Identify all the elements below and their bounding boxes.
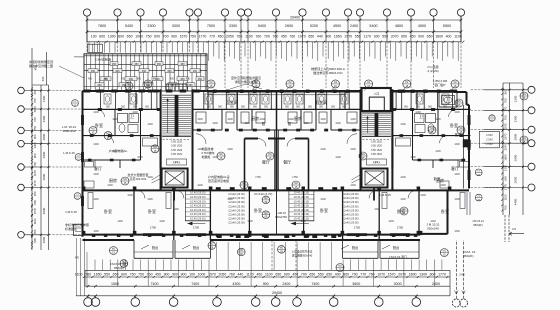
svg-text:阳台: 阳台 [352, 245, 358, 250]
svg-text:1070: 1070 [33, 169, 37, 176]
svg-text:2070: 2070 [398, 273, 406, 277]
svg-text:450: 450 [112, 63, 117, 66]
svg-text:2070: 2070 [504, 144, 508, 151]
svg-text:900: 900 [33, 153, 37, 158]
svg-text:600: 600 [99, 34, 105, 38]
svg-text:1080x240: 1080x240 [62, 129, 76, 133]
svg-text:0.58 1520: 0.58 1520 [371, 141, 383, 144]
svg-text:650: 650 [33, 191, 37, 196]
svg-text:450: 450 [170, 84, 175, 87]
svg-text:760: 760 [289, 34, 295, 38]
svg-text:2800: 2800 [42, 133, 46, 140]
svg-text:1200: 1200 [112, 150, 118, 153]
svg-text:C2x40 (29.00): C2x40 (29.00) [228, 192, 245, 196]
svg-text:4800: 4800 [395, 24, 403, 28]
svg-text:1200: 1200 [93, 143, 99, 146]
svg-text:450: 450 [188, 84, 193, 87]
svg-text:1650: 1650 [334, 34, 342, 38]
svg-text:2.540: 2.540 [486, 142, 493, 146]
svg-text:3900: 3900 [514, 154, 518, 161]
svg-text:5400: 5400 [125, 24, 133, 28]
svg-text:2600: 2600 [285, 24, 293, 28]
svg-text:4300: 4300 [232, 282, 240, 286]
svg-text:10.40 (29.10): 10.40 (29.10) [190, 191, 206, 195]
svg-text:入口: 入口 [374, 92, 380, 96]
svg-text:1200: 1200 [350, 148, 356, 151]
svg-text:1200: 1200 [212, 122, 218, 125]
svg-text:1200: 1200 [93, 173, 99, 176]
svg-text:1200: 1200 [454, 173, 460, 176]
svg-text:J.M.15.21: J.M.15.21 [472, 219, 484, 223]
svg-text:1000: 1000 [198, 273, 206, 277]
svg-text:1200: 1200 [107, 184, 113, 187]
svg-text:1200: 1200 [400, 176, 406, 179]
svg-text:1200: 1200 [350, 184, 356, 187]
svg-text:870: 870 [75, 257, 80, 260]
svg-text:1570: 1570 [33, 207, 37, 214]
svg-text:C2x40 (29.00): C2x40 (29.00) [342, 221, 359, 225]
svg-text:900: 900 [374, 34, 380, 38]
svg-text:厨: 厨 [262, 121, 266, 126]
svg-text:1750: 1750 [397, 226, 404, 230]
svg-text:1770: 1770 [199, 34, 207, 38]
svg-text:650: 650 [427, 34, 433, 38]
svg-text:450: 450 [129, 78, 134, 81]
svg-text:450: 450 [97, 84, 102, 87]
svg-text:600: 600 [504, 176, 508, 181]
svg-text:700: 700 [301, 273, 307, 277]
svg-text:2400: 2400 [432, 282, 440, 286]
svg-text:1000: 1000 [135, 34, 143, 38]
svg-text:1200: 1200 [227, 118, 233, 121]
svg-text:铝门窗P: 铝门窗P [434, 82, 445, 87]
svg-text:卧室: 卧室 [95, 122, 103, 128]
svg-text:450: 450 [142, 70, 147, 73]
svg-text:900: 900 [171, 34, 177, 38]
svg-text:1170: 1170 [33, 180, 37, 186]
svg-text:600: 600 [33, 89, 37, 94]
svg-text:1200: 1200 [147, 198, 153, 201]
svg-text:0.58 1520: 0.58 1520 [171, 141, 183, 144]
svg-text:550: 550 [104, 273, 110, 277]
svg-text:450: 450 [91, 70, 96, 73]
svg-text:1300: 1300 [504, 164, 508, 171]
svg-text:900: 900 [33, 238, 37, 243]
svg-text:2.540: 2.540 [486, 133, 493, 137]
svg-text:1200: 1200 [212, 156, 218, 159]
svg-text:C2x40 (29.00): C2x40 (29.00) [228, 213, 245, 217]
svg-text:7400: 7400 [151, 282, 159, 286]
svg-text:0.58 1520: 0.58 1520 [171, 153, 183, 156]
svg-text:4 (2300): 4 (2300) [427, 69, 438, 73]
svg-text:10.40 (29.10): 10.40 (29.10) [190, 199, 206, 203]
svg-text:2.540: 2.540 [486, 137, 493, 141]
svg-text:5400: 5400 [258, 24, 266, 28]
svg-text:440: 440 [317, 34, 323, 38]
svg-text:10.40 (29.10): 10.40 (29.10) [294, 208, 310, 212]
svg-text:2400: 2400 [350, 24, 358, 28]
svg-text:客厅: 客厅 [455, 132, 462, 137]
svg-text:29400: 29400 [290, 16, 300, 20]
svg-text:760: 760 [33, 117, 37, 122]
svg-text:C2x40 (29.00): C2x40 (29.00) [342, 192, 359, 196]
svg-text:1200: 1200 [350, 118, 356, 121]
svg-text:650: 650 [309, 273, 315, 277]
svg-text:C2x40 (29.00): C2x40 (29.00) [228, 204, 245, 208]
svg-text:1170: 1170 [363, 34, 371, 38]
svg-text:标准图集: 标准图集 [65, 226, 77, 231]
svg-text:C2x40 (29.00): C2x40 (29.00) [342, 217, 359, 221]
svg-text:450: 450 [180, 63, 185, 66]
svg-text:1800: 1800 [504, 154, 508, 161]
svg-text:4400: 4400 [514, 198, 518, 205]
svg-text:上部设双控开关详: 上部设双控开关详 [292, 250, 313, 254]
svg-text:760: 760 [255, 34, 261, 38]
svg-text:10.40 (29.10): 10.40 (29.10) [294, 191, 310, 195]
svg-text:760: 760 [504, 205, 508, 210]
svg-text:1570: 1570 [180, 34, 188, 38]
svg-text:1200: 1200 [93, 230, 99, 233]
svg-text:1200: 1200 [374, 208, 380, 211]
svg-text:1200: 1200 [244, 122, 250, 125]
svg-text:卧室: 卧室 [148, 208, 156, 214]
svg-text:1100: 1100 [75, 273, 83, 277]
svg-text:2070: 2070 [391, 34, 399, 38]
svg-text:650: 650 [127, 34, 133, 38]
svg-text:Ch:440 (4.70): Ch:440 (4.70) [254, 192, 272, 196]
svg-text:440: 440 [237, 273, 243, 277]
svg-text:0.58 1520: 0.58 1520 [171, 149, 183, 152]
svg-text:760: 760 [272, 34, 278, 38]
svg-text:1570: 1570 [388, 273, 396, 277]
svg-text:卧室: 卧室 [434, 176, 441, 181]
svg-text:450: 450 [292, 273, 298, 277]
svg-text:750: 750 [138, 273, 144, 277]
svg-text:1200: 1200 [173, 208, 179, 211]
svg-text:C2x40 (29.00): C2x40 (29.00) [228, 217, 245, 221]
svg-text:C2x40 (29.00): C2x40 (29.00) [228, 221, 245, 225]
svg-text:1170: 1170 [246, 273, 254, 277]
svg-text:450: 450 [170, 78, 175, 81]
svg-text:900: 900 [284, 273, 290, 277]
svg-text:1.M.6.15: 1.M.6.15 [379, 193, 391, 197]
svg-text:760: 760 [236, 34, 242, 38]
svg-text:1200: 1200 [320, 198, 326, 201]
svg-text:2000: 2000 [42, 173, 46, 180]
svg-text:1200: 1200 [227, 198, 233, 201]
svg-text:750: 750 [190, 34, 196, 38]
svg-text:0.58 1520: 0.58 1520 [371, 149, 383, 152]
svg-text:J.M.6.16 洞口: J.M.6.16 洞口 [389, 254, 407, 259]
svg-text:1200: 1200 [454, 143, 460, 146]
svg-text:650: 650 [275, 273, 281, 277]
svg-text:1200: 1200 [400, 123, 406, 126]
svg-text:450: 450 [122, 84, 127, 87]
svg-text:见电施图950x240: 见电施图950x240 [292, 253, 313, 257]
svg-text:760: 760 [504, 115, 508, 120]
svg-text:3300: 3300 [42, 115, 46, 122]
svg-text:600: 600 [121, 273, 127, 277]
svg-text:地漏处: 地漏处 [202, 154, 211, 159]
svg-text:2000: 2000 [514, 176, 518, 183]
svg-text:2050: 2050 [33, 106, 37, 113]
svg-text:900: 900 [263, 282, 269, 286]
svg-text:5200: 5200 [310, 24, 318, 28]
svg-text:1200: 1200 [335, 122, 341, 125]
svg-text:C2x40 (29.00): C2x40 (29.00) [342, 196, 359, 200]
svg-text:400: 400 [446, 34, 452, 38]
svg-text:3600: 3600 [352, 282, 360, 286]
svg-text:100: 100 [91, 34, 97, 38]
svg-text:1770: 1770 [438, 273, 446, 277]
svg-text:760: 760 [229, 273, 235, 277]
svg-text:0.58 1520: 0.58 1520 [371, 153, 383, 156]
svg-text:L.M.6.15: L.M.6.15 [63, 151, 75, 155]
svg-text:1200: 1200 [335, 156, 341, 159]
svg-text:C2x40 (29.00): C2x40 (29.00) [342, 213, 359, 217]
svg-text:10.40 (29.10): 10.40 (29.10) [294, 199, 310, 203]
svg-text:卧室: 卧室 [450, 122, 458, 128]
svg-text:4500: 4500 [418, 24, 426, 28]
svg-text:760: 760 [369, 273, 375, 277]
svg-text:900: 900 [33, 134, 37, 139]
svg-text:450: 450 [167, 70, 172, 73]
svg-text:3300: 3300 [147, 24, 155, 28]
svg-text:10.40 (29.10): 10.40 (29.10) [190, 195, 206, 199]
svg-text:1200: 1200 [93, 198, 99, 201]
svg-text:450: 450 [180, 78, 185, 81]
svg-text:1200: 1200 [420, 194, 426, 197]
svg-text:450: 450 [410, 34, 416, 38]
svg-text:1200: 1200 [93, 111, 99, 114]
svg-text:450: 450 [281, 34, 287, 38]
svg-text:1200: 1200 [300, 220, 306, 223]
svg-text:400: 400 [335, 273, 341, 277]
svg-text:450: 450 [104, 78, 109, 81]
svg-text:700: 700 [163, 34, 169, 38]
svg-text:做法参见详图二图: 做法参见详图二图 [29, 63, 53, 68]
svg-text:750: 750 [146, 34, 152, 38]
svg-text:4500: 4500 [333, 24, 341, 28]
svg-text:4000: 4000 [42, 207, 46, 214]
svg-text:1200: 1200 [227, 148, 233, 151]
svg-text:450: 450 [155, 273, 161, 277]
svg-text:450: 450 [121, 78, 126, 81]
svg-text:1200: 1200 [454, 230, 460, 233]
svg-text:800: 800 [33, 200, 37, 205]
svg-text:阳台: 阳台 [193, 245, 199, 250]
svg-text:1200: 1200 [430, 220, 436, 223]
svg-text:1200: 1200 [454, 198, 460, 201]
svg-text:1200: 1200 [137, 156, 143, 159]
svg-text:10.40 (29.10): 10.40 (29.10) [190, 217, 206, 221]
svg-text:1100: 1100 [504, 194, 508, 200]
svg-text:1200: 1200 [132, 111, 138, 114]
svg-text:1200: 1200 [288, 118, 294, 121]
svg-text:C2x40 (29.00): C2x40 (29.00) [228, 208, 245, 212]
svg-text:1570: 1570 [344, 34, 352, 38]
svg-text:1300: 1300 [419, 273, 427, 277]
svg-text:阳台: 阳台 [393, 245, 399, 250]
svg-text:770: 770 [209, 34, 215, 38]
svg-text:5400: 5400 [369, 24, 377, 28]
svg-text:1200: 1200 [159, 220, 165, 223]
svg-text:1200: 1200 [415, 111, 421, 114]
svg-text:550: 550 [318, 273, 324, 277]
svg-text:900: 900 [172, 273, 178, 277]
svg-text:3000: 3000 [394, 282, 402, 286]
svg-text:3300: 3300 [229, 24, 237, 28]
svg-text:0.58 1520: 0.58 1520 [371, 145, 383, 148]
svg-text:1570: 1570 [504, 133, 508, 140]
svg-text:550: 550 [382, 34, 388, 38]
svg-text:2400: 2400 [282, 282, 290, 286]
svg-text:L.M6.15: L.M6.15 [276, 211, 286, 215]
svg-text:600: 600 [430, 273, 436, 277]
svg-text:600: 600 [154, 34, 160, 38]
svg-text:770: 770 [360, 273, 366, 277]
svg-text:1750: 1750 [193, 226, 200, 230]
svg-text:C2x40 (29.00): C2x40 (29.00) [342, 200, 359, 204]
svg-text:1200: 1200 [320, 118, 326, 121]
svg-text:1200: 1200 [259, 118, 265, 121]
svg-text:1200: 1200 [197, 184, 203, 187]
svg-text:1200: 1200 [435, 150, 441, 153]
svg-text:29400: 29400 [272, 291, 282, 295]
svg-text:置高度详见电施: 置高度详见电施 [208, 178, 229, 183]
svg-text:650: 650 [326, 273, 332, 277]
svg-text:10.40 (29.10): 10.40 (29.10) [190, 212, 206, 216]
svg-text:1200: 1200 [454, 111, 460, 114]
svg-text:050x240: 050x240 [427, 227, 439, 231]
svg-text:2050: 2050 [219, 273, 227, 277]
svg-text:1400: 1400 [42, 95, 46, 102]
svg-text:1300: 1300 [108, 34, 116, 38]
svg-text:1570: 1570 [208, 273, 216, 277]
svg-text:900: 900 [418, 34, 424, 38]
svg-text:1750: 1750 [354, 226, 361, 230]
svg-text:C2x40 (29.00): C2x40 (29.00) [342, 204, 359, 208]
svg-text:450: 450 [134, 63, 139, 66]
svg-text:3.5: 3.5 [512, 227, 516, 231]
svg-text:1800: 1800 [435, 34, 443, 38]
svg-text:1200: 1200 [320, 148, 326, 151]
svg-text:1200: 1200 [247, 220, 253, 223]
svg-text:1200: 1200 [127, 194, 133, 197]
svg-text:10.40 (29.10): 10.40 (29.10) [190, 204, 206, 208]
svg-text:550: 550 [355, 34, 361, 38]
svg-text:1750: 1750 [150, 226, 157, 230]
svg-text:2-M6: 2-M6 [459, 274, 465, 277]
svg-text:卧室: 卧室 [104, 208, 112, 214]
svg-text:700: 700 [264, 34, 270, 38]
svg-text:450: 450 [218, 34, 224, 38]
svg-text:2800: 2800 [514, 133, 518, 140]
svg-text:1.M.6.15: 1.M.6.15 [65, 210, 77, 214]
svg-text:800: 800 [118, 34, 124, 38]
svg-text:450: 450 [153, 78, 158, 81]
svg-text:7400: 7400 [191, 282, 199, 286]
svg-text:1100: 1100 [33, 218, 37, 224]
svg-text:1200: 1200 [410, 156, 416, 159]
svg-text:1200: 1200 [197, 118, 203, 121]
svg-text:1200: 1200 [400, 198, 406, 201]
svg-text:3000: 3000 [172, 24, 180, 28]
svg-text:厨房: 厨房 [109, 177, 117, 183]
svg-text:700: 700 [504, 98, 508, 103]
svg-text:卧室: 卧室 [254, 207, 262, 213]
svg-text:550: 550 [33, 125, 37, 130]
svg-text:450: 450 [256, 273, 262, 277]
svg-text:1200: 1200 [197, 148, 203, 151]
svg-text:1200: 1200 [117, 220, 123, 223]
svg-text:800: 800 [504, 89, 508, 94]
svg-text:900: 900 [164, 273, 170, 277]
svg-text:1750: 1750 [255, 176, 261, 179]
svg-text:1650: 1650 [94, 273, 102, 277]
svg-text:餐厅: 餐厅 [262, 159, 270, 165]
svg-text:3900: 3900 [42, 151, 46, 158]
svg-text:760: 760 [85, 273, 91, 277]
svg-text:做法参见苏J9901-P21: 做法参见苏J9901-P21 [313, 70, 343, 75]
svg-text:1200: 1200 [303, 122, 309, 125]
svg-text:厨房: 厨房 [251, 115, 259, 121]
svg-text:3300: 3300 [514, 115, 518, 122]
svg-text:10.40 (29.10): 10.40 (29.10) [294, 204, 310, 208]
svg-text:1200: 1200 [388, 220, 394, 223]
svg-text:1070: 1070 [298, 34, 306, 38]
svg-text:1100: 1100 [245, 34, 253, 38]
svg-text:450: 450 [186, 78, 191, 81]
svg-text:厨房: 厨房 [294, 115, 302, 121]
svg-text:1200: 1200 [147, 123, 153, 126]
svg-text:卧室: 卧室 [320, 207, 328, 213]
svg-text:1200: 1200 [112, 118, 118, 121]
svg-text:450: 450 [137, 78, 142, 81]
svg-text:1070: 1070 [504, 123, 508, 130]
svg-text:900: 900 [181, 273, 187, 277]
svg-text:450: 450 [115, 70, 120, 73]
svg-text:650: 650 [33, 229, 37, 234]
svg-text:450: 450 [88, 78, 93, 81]
svg-text:650: 650 [308, 34, 314, 38]
svg-text:10.40 (29.10): 10.40 (29.10) [294, 195, 310, 199]
svg-text:5500: 5500 [443, 24, 451, 28]
svg-text:2050: 2050 [226, 34, 234, 38]
svg-text:0.58 1520: 0.58 1520 [171, 145, 183, 148]
svg-text:450: 450 [198, 78, 203, 81]
svg-text:1500: 1500 [42, 236, 46, 243]
svg-text:1200: 1200 [514, 95, 518, 102]
svg-text:7800: 7800 [98, 24, 106, 28]
svg-text:700: 700 [352, 273, 358, 277]
svg-text:卫: 卫 [130, 114, 134, 119]
svg-text:C2x40 (29.00): C2x40 (29.00) [342, 208, 359, 212]
svg-text:1200: 1200 [435, 118, 441, 121]
svg-text:1800: 1800 [409, 273, 417, 277]
svg-text:1200: 1200 [147, 176, 153, 179]
svg-text:卫: 卫 [419, 114, 423, 119]
svg-text:1070: 1070 [377, 273, 385, 277]
svg-text:阳台: 阳台 [152, 245, 158, 250]
svg-text:420: 420 [41, 76, 45, 81]
svg-text:950x2750: 950x2750 [275, 215, 287, 219]
svg-text:见苏J01-501: 见苏J01-501 [130, 176, 147, 181]
svg-text:10.40 (29.10): 10.40 (29.10) [190, 208, 206, 212]
svg-text:800: 800 [343, 273, 349, 277]
svg-text:餐厅: 餐厅 [283, 159, 291, 165]
svg-text:950(2F): 950(2F) [473, 223, 483, 227]
